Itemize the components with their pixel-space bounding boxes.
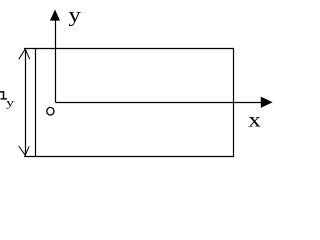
rectangle plate right edge [233,48,235,157]
label x [248,108,261,132]
rectangle plate top edge [24,48,234,50]
label l subscript y [6,97,14,109]
label l (drawn: top flag) [0,91,4,93]
dimension top arrowhead [19,49,30,59]
dimension line l_y [25,49,27,157]
y-axis line [55,12,57,103]
x-axis arrowhead [261,97,273,108]
rectangle plate left edge [35,48,37,157]
label o (origin) [47,107,54,115]
label l foot [1,98,8,100]
svg-text:y: y [69,3,82,26]
svg-text:x: x [248,108,261,132]
rectangle plate bottom edge [24,156,234,158]
label l stem [3,91,5,98]
y-axis arrowhead [50,9,60,20]
svg-text:y: y [6,97,14,109]
label y [69,3,82,26]
dimension bottom arrowhead [19,146,30,155]
x-axis line [56,102,264,104]
